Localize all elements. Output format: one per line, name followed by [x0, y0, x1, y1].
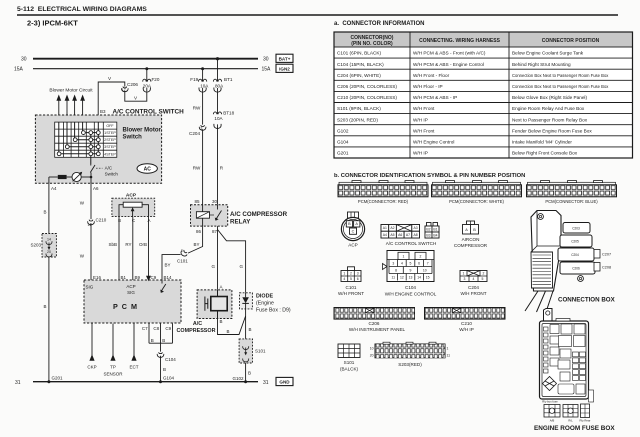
svg-text:Behind Right Strut Mounting: Behind Right Strut Mounting: [512, 62, 571, 67]
svg-text:B: B: [348, 222, 351, 226]
svg-text:C206 (20PIN, COLORLESS): C206 (20PIN, COLORLESS): [337, 84, 397, 89]
svg-text:A: A: [220, 285, 223, 290]
svg-text:W/H Front: W/H Front: [413, 128, 435, 133]
svg-text:W/H ENGINE CONTROL: W/H ENGINE CONTROL: [385, 292, 437, 297]
svg-text:SbB: SbB: [108, 242, 117, 247]
svg-text:W/H INSTRUMENT PANEL: W/H INSTRUMENT PANEL: [349, 327, 406, 332]
svg-text:G102: G102: [232, 376, 244, 381]
svg-text:C210: C210: [461, 321, 472, 326]
svg-text:8: 8: [395, 269, 397, 273]
svg-text:C101: C101: [177, 259, 188, 264]
svg-text:F19: F19: [190, 77, 198, 82]
svg-text:C204: C204: [189, 131, 200, 136]
svg-text:C101: C101: [346, 285, 357, 290]
svg-text:C101 (6PIN, BLACK): C101 (6PIN, BLACK): [337, 51, 381, 56]
svg-text:1: 1: [181, 249, 183, 253]
svg-text:SENSOR: SENSOR: [103, 372, 123, 377]
svg-text:BT18: BT18: [223, 111, 234, 116]
svg-text:C207: C207: [602, 253, 611, 257]
svg-text:B: B: [473, 228, 476, 232]
svg-text:Engine Room Relay And Fuse Box: Engine Room Relay And Fuse Box: [512, 106, 585, 111]
svg-text:B: B: [43, 210, 46, 215]
svg-text:BY: BY: [193, 242, 199, 247]
svg-text:14: 14: [417, 276, 421, 280]
svg-text:B2: B2: [426, 227, 430, 231]
svg-text:(BALCK): (BALCK): [340, 367, 359, 372]
svg-text:SIG: SIG: [127, 290, 135, 295]
svg-text:A: A: [465, 228, 468, 232]
svg-text:A2: A2: [390, 226, 394, 230]
svg-text:B: B: [220, 319, 223, 324]
svg-text:A: A: [355, 222, 358, 226]
svg-text:A1: A1: [383, 226, 387, 230]
svg-text:A/B: A/B: [550, 419, 555, 423]
svg-text:(Engine: (Engine: [256, 301, 274, 307]
svg-text:G201: G201: [52, 376, 64, 381]
svg-text:W/H Front: W/H Front: [413, 106, 435, 111]
svg-text:2: 2: [483, 272, 485, 276]
svg-text:AIRCON: AIRCON: [462, 237, 480, 242]
svg-text:AC: AC: [144, 167, 152, 173]
svg-text:Below Engine Coolant Surge Tan: Below Engine Coolant Surge Tank: [512, 51, 584, 56]
svg-text:9: 9: [409, 269, 411, 273]
svg-text:C8: C8: [153, 326, 159, 331]
svg-text:ACP: ACP: [126, 192, 137, 198]
svg-text:3: 3: [392, 262, 394, 266]
svg-text:C206: C206: [127, 82, 138, 87]
svg-text:20A: 20A: [143, 83, 152, 88]
svg-text:DIODE: DIODE: [256, 294, 273, 300]
svg-text:12: 12: [400, 276, 404, 280]
svg-text:6: 6: [357, 277, 359, 281]
svg-text:C104 (15PIN, BLACK): C104 (15PIN, BLACK): [337, 62, 384, 67]
svg-text:C206: C206: [369, 321, 380, 326]
svg-text:Switch: Switch: [123, 135, 143, 141]
svg-text:B: B: [151, 338, 154, 343]
svg-text:C204 (6PIN, WHITE): C204 (6PIN, WHITE): [337, 73, 381, 78]
svg-text:1: 1: [403, 254, 405, 258]
svg-text:3STEP: 3STEP: [104, 145, 116, 149]
svg-text:10A: 10A: [214, 116, 223, 121]
svg-text:RW: RW: [193, 106, 201, 111]
svg-text:PCM(CONNECTOR: WHITE): PCM(CONNECTOR: WHITE): [449, 199, 504, 204]
svg-text:S101: S101: [344, 360, 355, 365]
svg-text:80A: 80A: [215, 83, 224, 88]
svg-text:5: 5: [410, 262, 412, 266]
svg-text:TP: TP: [110, 365, 116, 370]
svg-text:PCM: PCM: [113, 302, 141, 311]
svg-text:C205: C205: [571, 240, 579, 244]
svg-text:COMPRESSOR: COMPRESSOR: [454, 243, 488, 248]
svg-text:W/H PCM & ABS - Engine Control: W/H PCM & ABS - Engine Control: [413, 62, 484, 67]
svg-text:17: 17: [122, 88, 126, 92]
svg-text:A5: A5: [390, 233, 394, 237]
svg-text:A4: A4: [383, 233, 387, 237]
svg-text:15A: 15A: [14, 67, 24, 73]
svg-text:2-3) IPCM-6KT: 2-3) IPCM-6KT: [27, 19, 78, 28]
svg-text:SIG: SIG: [86, 285, 94, 290]
svg-text:14: 14: [47, 238, 51, 242]
svg-text:S203: S203: [30, 243, 41, 248]
svg-text:11: 11: [447, 354, 451, 358]
svg-text:87: 87: [212, 229, 218, 234]
svg-text:B: B: [163, 367, 166, 372]
svg-text:C204: C204: [468, 285, 479, 290]
svg-text:31: 31: [15, 380, 21, 386]
svg-text:CONNECTOR(NO): CONNECTOR(NO): [351, 35, 394, 41]
svg-text:RELAY: RELAY: [230, 219, 251, 226]
svg-text:RY: RY: [125, 242, 131, 247]
svg-text:Below Glove Box (Right Side Pa: Below Glove Box (Right Side Panel): [512, 95, 587, 100]
svg-text:5-112 ELECTRICAL WIRING DIAGR: 5-112 ELECTRICAL WIRING DIAGRAMS: [17, 6, 147, 13]
svg-text:B1: B1: [121, 275, 127, 280]
svg-text:B9: B9: [135, 275, 141, 280]
svg-text:F20: F20: [152, 77, 160, 82]
svg-text:2STEP: 2STEP: [104, 138, 116, 142]
svg-text:G104: G104: [163, 376, 175, 381]
svg-text:A/C CONTROL SWITCH: A/C CONTROL SWITCH: [386, 241, 437, 246]
svg-text:Switch: Switch: [105, 172, 119, 177]
svg-text:A4: A4: [51, 186, 57, 191]
svg-text:B: B: [227, 329, 230, 334]
svg-text:30: 30: [212, 199, 218, 204]
svg-text:A6: A6: [93, 186, 99, 191]
svg-text:C104: C104: [165, 357, 176, 362]
svg-text:A/C: A/C: [193, 321, 202, 327]
svg-text:20: 20: [47, 250, 51, 254]
svg-text:W/H IP: W/H IP: [413, 151, 428, 156]
svg-text:86: 86: [196, 229, 202, 234]
svg-text:20: 20: [370, 354, 374, 358]
svg-text:C203: C203: [572, 227, 580, 231]
svg-text:2: 2: [350, 272, 352, 276]
svg-text:A/C CONTROL SWITCH: A/C CONTROL SWITCH: [113, 108, 185, 115]
svg-text:G104: G104: [337, 140, 349, 145]
svg-text:4: 4: [473, 277, 475, 281]
svg-text:W/H PCM & ABS - Front (with A/: W/H PCM & ABS - Front (with A/C): [413, 51, 486, 56]
svg-text:10: 10: [370, 347, 374, 351]
svg-text:(PIN NO. COLOR): (PIN NO. COLOR): [351, 41, 393, 47]
svg-text:C204: C204: [571, 253, 579, 257]
svg-text:B: B: [43, 304, 46, 309]
svg-text:C208: C208: [602, 266, 611, 270]
svg-text:PCM(CONNECTOR: RED): PCM(CONNECTOR: RED): [358, 199, 409, 204]
svg-text:B: B: [162, 338, 165, 343]
svg-text:S101: S101: [255, 349, 266, 354]
svg-text:10A: 10A: [200, 83, 209, 88]
svg-text:ACP: ACP: [126, 284, 135, 289]
svg-text:C210: C210: [96, 218, 107, 223]
svg-text:A/C: A/C: [105, 166, 113, 171]
svg-text:OFF: OFF: [106, 124, 114, 128]
svg-text:3: 3: [200, 126, 202, 130]
svg-text:W/H Front - Floor: W/H Front - Floor: [413, 73, 450, 78]
svg-text:6: 6: [418, 262, 420, 266]
svg-text:11: 11: [392, 276, 396, 280]
svg-text:G201: G201: [337, 151, 349, 156]
svg-text:Rly Rear: Rly Rear: [580, 419, 591, 423]
svg-text:C206: C206: [572, 267, 580, 271]
svg-text:B: B: [118, 218, 121, 223]
svg-text:1: 1: [463, 272, 465, 276]
svg-text:15A: 15A: [262, 67, 272, 73]
svg-text:S101 (9PIN, BLACK): S101 (9PIN, BLACK): [337, 106, 381, 111]
svg-text:15: 15: [426, 276, 430, 280]
svg-text:Blower Motor Circuit: Blower Motor Circuit: [49, 88, 93, 94]
svg-text:A6: A6: [398, 233, 402, 237]
svg-text:R/L: R/L: [568, 419, 573, 423]
svg-text:Fender Below Engine Room Fuse: Fender Below Engine Room Fuse Box: [512, 128, 592, 133]
svg-text:S203 (20PIN, RED): S203 (20PIN, RED): [337, 117, 378, 122]
svg-text:W/H Floor - IP: W/H Floor - IP: [413, 84, 443, 89]
svg-text:1: 1: [447, 347, 449, 351]
svg-text:G: G: [239, 264, 243, 269]
svg-text:W/H FRONT: W/H FRONT: [338, 291, 364, 296]
svg-text:COMPRESSOR: COMPRESSOR: [177, 328, 216, 334]
svg-text:C9: C9: [165, 326, 171, 331]
svg-text:4: 4: [401, 262, 403, 266]
svg-text:5: 5: [482, 277, 484, 281]
svg-text:B14: B14: [164, 275, 173, 280]
svg-text:30: 30: [263, 57, 269, 63]
svg-text:85: 85: [194, 199, 200, 204]
svg-text:A3: A3: [414, 226, 418, 230]
svg-text:b. CONNECTOR IDENTIFICATION SY: b. CONNECTOR IDENTIFICATION SYMBOL & PIN…: [334, 173, 525, 179]
svg-text:W/H IP: W/H IP: [459, 327, 474, 332]
svg-text:W/H PCM & ABS - IP: W/H PCM & ABS - IP: [413, 95, 457, 100]
svg-text:3: 3: [357, 272, 359, 276]
svg-text:RW: RW: [193, 166, 201, 171]
svg-text:B4: B4: [433, 233, 437, 237]
svg-text:B3: B3: [426, 233, 430, 237]
svg-text:C7: C7: [142, 326, 148, 331]
svg-text:CONNECTOR POSITION: CONNECTOR POSITION: [542, 38, 600, 44]
svg-text:Connection Box Next to Passeng: Connection Box Next to Passenger Room Fu…: [512, 73, 609, 78]
svg-text:A8: A8: [414, 233, 418, 237]
svg-text:BT1: BT1: [224, 77, 233, 82]
svg-text:CONNECTION BOX: CONNECTION BOX: [558, 296, 616, 303]
svg-text:4: 4: [343, 277, 345, 281]
svg-text:13: 13: [409, 276, 413, 280]
svg-text:3: 3: [464, 277, 466, 281]
svg-text:Fuse Box : D9): Fuse Box : D9): [256, 308, 291, 314]
svg-text:S203(RED): S203(RED): [398, 362, 422, 367]
svg-text:OrB: OrB: [139, 242, 147, 247]
svg-text:ENGINE ROOM FUSE BOX: ENGINE ROOM FUSE BOX: [534, 425, 615, 432]
svg-text:Blower Motor: Blower Motor: [123, 128, 162, 134]
svg-text:BAT+: BAT+: [279, 57, 291, 62]
svg-text:C9: C9: [151, 275, 157, 280]
svg-text:BY: BY: [165, 263, 171, 268]
svg-text:CKP: CKP: [87, 365, 96, 370]
svg-text:a. CONNECTOR INFORMATION: a. CONNECTOR INFORMATION: [334, 21, 424, 27]
svg-text:W/H FRONT: W/H FRONT: [460, 291, 486, 296]
svg-text:B: B: [249, 327, 252, 332]
svg-text:E16: E16: [93, 275, 102, 280]
svg-text:B: B: [248, 371, 251, 376]
svg-text:C: C: [352, 230, 355, 234]
svg-text:W/H IP: W/H IP: [413, 117, 428, 122]
svg-text:C210 (20PIN, COLORLESS): C210 (20PIN, COLORLESS): [337, 95, 397, 100]
svg-text:A7: A7: [406, 233, 410, 237]
svg-text:30: 30: [21, 57, 27, 63]
svg-text:W/H Engine Control: W/H Engine Control: [413, 140, 454, 145]
svg-text:31: 31: [263, 380, 269, 386]
svg-text:ECT: ECT: [130, 365, 139, 370]
svg-text:Intake Manifold 'M4' Cylinder: Intake Manifold 'M4' Cylinder: [512, 140, 572, 145]
svg-text:1STEP: 1STEP: [104, 131, 116, 135]
svg-text:Below Right Front Console Box: Below Right Front Console Box: [512, 151, 578, 156]
svg-text:A/C COMPRESSOR: A/C COMPRESSOR: [230, 211, 288, 218]
svg-text:5: 5: [350, 277, 352, 281]
svg-text:B1: B1: [433, 227, 437, 231]
svg-text:G: G: [211, 264, 215, 269]
svg-text:G102: G102: [337, 128, 349, 133]
svg-text:B3: B3: [100, 109, 106, 114]
svg-text:Next to Passenger Room Relay B: Next to Passenger Room Relay Box: [512, 117, 588, 122]
svg-text:PCM(CONNECTOR: BLUE): PCM(CONNECTOR: BLUE): [545, 199, 598, 204]
svg-text:10: 10: [423, 269, 427, 273]
svg-text:CONNECTING. WIRING HARNESS: CONNECTING. WIRING HARNESS: [419, 38, 501, 44]
svg-text:IGN2: IGN2: [279, 67, 290, 72]
svg-text:ACP: ACP: [348, 243, 357, 248]
svg-text:A: A: [147, 218, 150, 223]
svg-text:C104: C104: [405, 285, 416, 290]
svg-text:Connection Box Next to Passeng: Connection Box Next to Passenger Room Fu…: [512, 84, 609, 89]
svg-text:GND: GND: [279, 380, 290, 385]
svg-text:1: 1: [343, 272, 345, 276]
svg-text:Rly box fuse: Rly box fuse: [542, 400, 558, 404]
svg-text:16: 16: [88, 223, 92, 227]
svg-text:4STEP: 4STEP: [104, 152, 116, 156]
svg-text:7: 7: [427, 262, 429, 266]
svg-text:2: 2: [420, 254, 422, 258]
